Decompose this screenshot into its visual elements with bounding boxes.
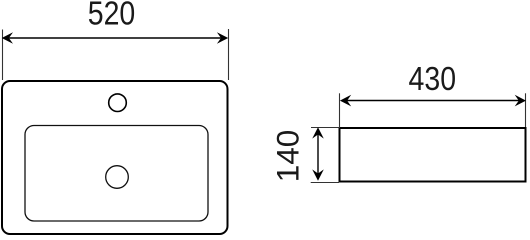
svg-text:430: 430	[409, 60, 457, 97]
svg-text:140: 140	[270, 130, 306, 183]
svg-text:520: 520	[88, 0, 136, 32]
